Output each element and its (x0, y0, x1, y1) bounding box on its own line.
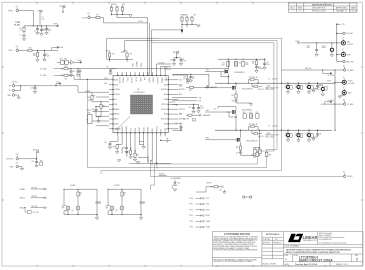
wire PLLIN line (104, 22, 148, 24)
svg-text:R13: R13 (33, 53, 36, 55)
svg-text:100uF: 100uF (306, 87, 310, 89)
svg-text:C5: C5 (42, 17, 44, 19)
terminal GND E11 (10, 163, 24, 171)
power flag INTVCC (38, 10, 45, 26)
svg-text:470uF: 470uF (295, 87, 299, 89)
resistor R27 (63, 74, 75, 80)
wire top (64, 189, 97, 200)
svg-text:1uF: 1uF (42, 19, 45, 21)
svg-text:E10: E10 (16, 154, 19, 156)
svg-text:ITEMP1: ITEMP1 (148, 156, 150, 162)
svg-text:BG1: BG1 (179, 94, 182, 96)
svg-text:Tuesday, April 15, 2014: Tuesday, April 15, 2014 (295, 263, 318, 266)
die pad crosshatch (131, 95, 153, 114)
svg-text:TP1: TP1 (342, 24, 345, 26)
svg-text:REVISION HISTORY: REVISION HISTORY (312, 5, 332, 7)
buffer U2 (57, 59, 82, 65)
svg-text:SW2: SW2 (164, 124, 167, 126)
capacitor C18 (232, 100, 238, 103)
approvals grid (262, 237, 284, 259)
svg-text:PLLIN: PLLIN (135, 77, 137, 81)
svg-text:DESCRIPTION: DESCRIPTION (312, 8, 326, 10)
svg-text:VOUT+: VOUT+ (348, 81, 354, 83)
wire VOSNS+ top (282, 69, 344, 71)
svg-text:BSC050NE2LS: BSC050NE2LS (235, 72, 245, 74)
capacitor C50 (105, 141, 119, 149)
svg-text:REV: REV (298, 8, 303, 10)
terminal GND sense (337, 60, 354, 63)
svg-text:VFB2: VFB2 (206, 215, 210, 217)
svg-text:10uF: 10uF (245, 64, 248, 66)
svg-text:SW1: SW1 (164, 84, 167, 86)
ground SGND (117, 160, 139, 164)
svg-text:VIN_SNS: VIN_SNS (346, 33, 352, 35)
wire mid horizontals (86, 79, 88, 167)
capacitor C31 (31, 85, 37, 93)
capacitor C8 (170, 58, 176, 66)
svg-text:C9: C9 (182, 59, 184, 61)
LTC logo (288, 233, 318, 242)
svg-text:PGOOD2: PGOOD2 (156, 77, 158, 84)
snubber R23 C28 (253, 130, 261, 156)
svg-text:ECO: ECO (290, 8, 295, 10)
svg-text:E11: E11 (16, 163, 19, 165)
svg-text:R7: R7 (116, 7, 118, 9)
wire VIN rail (302, 42, 337, 44)
svg-text:C28: C28 (200, 106, 203, 108)
svg-text:TITLE: SCHEMATIC: TITLE: SCHEMATIC (284, 244, 300, 247)
jumper JP1 MODE (110, 4, 147, 18)
capacitor C45 (312, 130, 322, 141)
svg-text:R30: R30 (252, 154, 255, 156)
svg-text:ITH2: ITH2 (131, 128, 133, 131)
svg-text:R15: R15 (64, 59, 67, 61)
svg-text:PVIN: PVIN (164, 99, 168, 101)
svg-text:TP11: TP11 (189, 204, 193, 206)
svg-text:R33: R33 (88, 97, 91, 99)
svg-text:C15: C15 (238, 63, 241, 65)
svg-text:SNS2-: SNS2- (118, 127, 120, 132)
svg-text:PRODUCTION: PRODUCTION (312, 11, 326, 13)
svg-text:CLKOUT: CLKOUT (159, 62, 165, 64)
svg-text:J3: J3 (342, 49, 344, 51)
svg-text:CLKIN: CLKIN (77, 60, 81, 62)
ground PGND1 (236, 103, 253, 106)
svg-text:APP ENG: APP ENG (262, 242, 271, 245)
svg-text:C32: C32 (285, 85, 288, 87)
svg-text:DATE: DATE (351, 7, 357, 10)
transistor Q4 (237, 130, 258, 146)
inductor L2 (265, 125, 279, 138)
svg-text:DCR = 0.32m: DCR = 0.32m (265, 89, 275, 91)
wire bottom (64, 214, 97, 216)
svg-text:MIKHAIL N: MIKHAIL N (336, 10, 346, 13)
box R36 (88, 113, 93, 124)
svg-text:PHASMD: PHASMD (181, 13, 189, 16)
wire INTVCC row (172, 74, 209, 88)
resistor R41 (126, 150, 132, 159)
svg-text:4.7uF: 4.7uF (183, 78, 187, 80)
svg-text:R14: R14 (60, 59, 63, 61)
svg-text:E6: E6 (343, 100, 345, 102)
wire sense loop A (101, 38, 282, 174)
capacitor C15 (234, 62, 241, 67)
svg-text:R2_4: R2_4 (179, 85, 183, 87)
net arrow RUN (52, 46, 64, 50)
wire PHASMD to bus (156, 29, 182, 31)
svg-text:LED: LED (178, 183, 181, 185)
jumper JP4 RUN2 (123, 51, 132, 60)
svg-text:BOOST1: BOOST1 (161, 89, 167, 91)
svg-text:TP15: TP15 (189, 227, 193, 229)
svg-text:VO_SNS-: VO_SNS- (40, 75, 47, 77)
svg-text:2: 2 (356, 258, 358, 262)
resistor R1 (20, 26, 26, 34)
svg-text:E7: E7 (343, 172, 345, 174)
svg-text:OPT: OPT (98, 203, 101, 205)
power flag INTVCC2 (173, 52, 181, 59)
svg-text:VO_SNS+: VO_SNS+ (347, 70, 354, 72)
svg-text:R41: R41 (126, 152, 129, 154)
svg-text:C50: C50 (105, 142, 108, 144)
wire VOSNS to IC (78, 68, 229, 70)
resistor R42 (133, 153, 139, 161)
svg-text:TECHNOLOGY: TECHNOLOGY (303, 240, 317, 242)
svg-text:R31: R31 (269, 154, 272, 156)
svg-text:R5: R5 (97, 15, 99, 17)
resistor R22 (236, 146, 242, 152)
svg-text:TIB: TIB (199, 101, 201, 103)
svg-text:SNSD1+: SNSD1+ (20, 198, 26, 200)
node SW1 bus (215, 82, 335, 84)
svg-text:R40: R40 (113, 146, 116, 148)
svg-text:SNSD2+: SNSD2+ (122, 126, 124, 132)
capacitor C11 electrolytic (322, 43, 334, 57)
svg-text:Fax: (408)434-0507: Fax: (408)434-0507 (319, 239, 332, 241)
svg-text:1-15-14: 1-15-14 (350, 11, 358, 13)
svg-text:VOSNS-: VOSNS- (114, 94, 120, 96)
diode D1 (172, 180, 176, 189)
testpoint TP1 (336, 24, 345, 26)
svg-text:C1: C1 (20, 35, 22, 37)
svg-text:Q5: Q5 (71, 210, 73, 212)
svg-text:R34: R34 (102, 105, 105, 107)
svg-text:VO_SNS+: VO_SNS+ (40, 68, 47, 70)
svg-text:C26: C26 (255, 112, 258, 114)
svg-text:INTVCC: INTVCC (156, 125, 158, 132)
resistor R30 (252, 152, 259, 156)
resistor R33 (88, 94, 94, 102)
svg-text:BG2: BG2 (206, 138, 209, 140)
svg-text:TP13: TP13 (189, 215, 193, 217)
terminal RUN (9, 46, 19, 52)
svg-text:VOUT: VOUT (327, 80, 331, 82)
jack J2 VIN (337, 38, 353, 46)
capacitor C31 (172, 123, 182, 131)
net arrow VCC (55, 82, 61, 87)
svg-text:J4: J4 (343, 77, 345, 79)
svg-text:C8: C8 (170, 60, 172, 62)
svg-text:C55: C55 (32, 161, 35, 163)
rotated top pin labels (118, 77, 167, 84)
capacitor C29 (69, 68, 75, 77)
inductor L1 (265, 79, 279, 92)
svg-text:LTC3875EUJ: LTC3875EUJ (134, 92, 145, 94)
svg-text:EXTVCC: EXTVCC (169, 102, 176, 104)
terminal VO_SNS- (343, 100, 354, 106)
resistor R34 (100, 101, 105, 110)
capacitor C9b (189, 74, 195, 82)
svg-text:R8: R8 (121, 7, 123, 9)
svg-text:VFB1: VFB1 (206, 209, 210, 211)
svg-text:C4: C4 (48, 28, 50, 30)
svg-text:C35: C35 (319, 85, 322, 87)
power flag VCC top (60, 6, 67, 13)
right block rows (283, 232, 363, 267)
svg-text:VFB: VFB (114, 104, 117, 106)
rotated labels above IC (131, 61, 142, 68)
svg-text:ITEMP2: ITEMP2 (152, 159, 154, 165)
svg-text:R47 NC: R47 NC (207, 182, 213, 184)
svg-text:C24: C24 (184, 77, 187, 79)
ground stubs left (96, 110, 101, 123)
svg-text:R42: R42 (136, 155, 139, 157)
capacitor C51 (122, 147, 128, 153)
terminal VIN sense (336, 32, 353, 35)
resistor R50 (77, 192, 79, 196)
svg-text:SIZE: SIZE (284, 255, 288, 257)
connector J6 VCC (8, 82, 79, 100)
capacitor C42 (285, 130, 293, 142)
svg-text:C27: C27 (236, 152, 239, 154)
svg-text:C29: C29 (72, 71, 75, 73)
svg-text:L2: L2 (268, 125, 270, 127)
capacitor C14 (221, 62, 230, 67)
svg-text:MODE: MODE (111, 4, 117, 6)
svg-text:R50: R50 (79, 193, 82, 195)
svg-text:L1: L1 (268, 79, 270, 81)
svg-text:INTVCC: INTVCC (161, 104, 168, 106)
svg-text:R11: R11 (191, 17, 194, 19)
svg-text:OPT: OPT (62, 207, 65, 209)
svg-text:C11: C11 (323, 45, 326, 47)
resistor R51b (121, 192, 123, 196)
wire sense loop C (151, 43, 274, 164)
svg-text:GND_SNS: GND_SNS (346, 61, 353, 63)
svg-text:OPT: OPT (106, 207, 109, 209)
net arrow VO_SNS- left (40, 75, 63, 78)
rotated labels below IC (122, 147, 158, 169)
svg-text:DCR = 0.32m: DCR = 0.32m (265, 136, 275, 138)
resistor R31 (265, 152, 271, 156)
testpoint TP11 (189, 203, 209, 205)
resistor R45 OPT loop (24, 207, 38, 214)
svg-text:C6: C6 (46, 54, 48, 56)
resistor R20 (243, 112, 247, 118)
capacitor C61 (140, 201, 142, 202)
ground (96, 215, 98, 217)
svg-text:ITEMP2: ITEMP2 (152, 77, 154, 83)
ground (128, 14, 130, 16)
svg-text:R21: R21 (249, 112, 252, 114)
capacitor C12 (307, 43, 319, 57)
svg-text:MODE: MODE (114, 124, 119, 126)
svg-text:C58: C58 (106, 67, 109, 69)
svg-text:470uF: 470uF (285, 135, 289, 137)
svg-text:10: 10 (79, 194, 81, 196)
wire top bends to right (157, 64, 172, 72)
svg-text:JP4: JP4 (130, 54, 133, 56)
svg-text:C43: C43 (295, 133, 298, 135)
net arrow BG1 (205, 87, 233, 89)
wire bottom collector (130, 163, 172, 165)
node VIN rail phase1 (218, 58, 266, 60)
resistor R37 sense tap 1 (249, 76, 259, 83)
svg-text:R10: R10 (186, 17, 189, 19)
svg-text:R52: R52 (62, 206, 65, 208)
capacitor C30 OPT (183, 118, 196, 121)
capacitor C28 (172, 104, 204, 113)
testpoint TP12 (189, 209, 209, 211)
wire PGOOD long (150, 175, 344, 177)
testpoint TP15 (189, 226, 211, 228)
labels IC left pins outside (85, 78, 109, 121)
transistor Q2 (233, 83, 254, 94)
capacitor C2 (34, 26, 39, 35)
svg-text:LINEAR: LINEAR (303, 235, 318, 241)
svg-text:4.5V-14V: 4.5V-14V (347, 44, 353, 46)
svg-text:C60: C60 (98, 201, 101, 203)
capacitor C16 (241, 62, 248, 67)
svg-text:C51: C51 (122, 148, 125, 150)
capacitor C40 sense tap 2 (252, 130, 263, 138)
power flag EXTVCC (33, 150, 40, 154)
svg-text:RUN: RUN (165, 77, 167, 80)
capacitor C58 top-left of IC (106, 67, 116, 76)
transistor Q5 (66, 206, 70, 210)
svg-text:R9: R9 (181, 17, 183, 19)
svg-text:5V_VCC: 5V_VCC (12, 82, 19, 84)
svg-text:C9: C9 (192, 76, 194, 78)
terminal PLLIN (82, 13, 90, 19)
svg-text:SNS_1B: SNS_1B (258, 89, 263, 91)
svg-text:R22: R22 (236, 147, 239, 149)
svg-text:E3: E3 (16, 46, 18, 48)
svg-text:C34: C34 (306, 85, 309, 87)
svg-text:PGOOD1: PGOOD1 (118, 77, 120, 84)
jack J5 GND out (338, 87, 352, 98)
svg-text:J2: J2 (342, 38, 344, 40)
net arrow SNS_1A (20, 186, 47, 190)
svg-text:2200pF: 2200pF (258, 68, 263, 70)
svg-text:470uF: 470uF (285, 87, 289, 89)
title area (284, 244, 359, 266)
wire EXTVCC (18, 153, 36, 159)
wire VOUT rail (335, 70, 343, 130)
svg-text:VFB2: VFB2 (135, 128, 137, 132)
wire boost (221, 72, 228, 77)
capacitor C27 (236, 152, 242, 155)
svg-text:E9: E9 (9, 90, 11, 92)
svg-text:C30_OPT: C30_OPT (183, 118, 189, 120)
svg-text:RUN: RUN (9, 50, 14, 52)
svg-text:R54: R54 (106, 206, 109, 208)
resistor R40 (113, 144, 123, 153)
svg-text:2.2uF: 2.2uF (266, 64, 270, 66)
svg-text:R57: R57 (40, 160, 43, 162)
svg-text:0.1uF: 0.1uF (221, 64, 225, 66)
capacitor C35 (312, 83, 322, 93)
svg-text:10: 10 (123, 194, 125, 196)
svg-text:TP10: TP10 (189, 198, 193, 200)
jumper JP2 PHASMD (181, 13, 201, 33)
rotated bottom pin labels (118, 125, 167, 132)
svg-text:0.1uF: 0.1uF (200, 107, 204, 109)
svg-text:CLKOUT: CLKOUT (130, 77, 132, 83)
resistor R38 sense tap 2 (249, 123, 259, 130)
wire bottom verticals to bus (150, 160, 154, 185)
svg-text:R1: R1 (20, 28, 22, 30)
svg-text:C18: C18 (232, 100, 235, 102)
svg-text:ITEMP1: ITEMP1 (147, 77, 149, 83)
svg-text:C12: C12 (307, 45, 310, 47)
svg-text:PVIN: PVIN (8, 10, 13, 12)
capacitor C3 (40, 26, 45, 36)
net arrow VO_SNS+ left (40, 68, 63, 71)
svg-text:DEMO CIRCUIT 2050A: DEMO CIRCUIT 2050A (299, 258, 333, 262)
svg-text:BOOST1: BOOST1 (179, 89, 185, 91)
net arrow VOSNS- (325, 100, 335, 104)
svg-text:J5: J5 (343, 87, 345, 89)
svg-text:APPROVED: APPROVED (336, 7, 348, 10)
svg-text:R27: R27 (65, 78, 68, 80)
svg-text:R12: R12 (29, 47, 32, 49)
svg-text:INTVCC: INTVCC (60, 6, 67, 8)
svg-text:R6: R6 (180, 113, 182, 115)
wire PVIN to bus (18, 11, 33, 26)
svg-text:C58_OPT: C58_OPT (33, 212, 39, 214)
ground below IC (139, 141, 145, 148)
svg-text:C25: C25 (214, 108, 217, 110)
capacitor C44 (306, 130, 314, 142)
svg-text:C3: C3 (43, 28, 45, 30)
svg-text:E5: E5 (343, 65, 345, 67)
capacitor C1 (20, 35, 26, 41)
op-amp U1 body (113, 76, 168, 133)
terminal VO_SNS+ (343, 65, 354, 71)
node SW2 bus (215, 129, 332, 131)
capacitor C26 (255, 112, 259, 118)
svg-text:PGOOD: PGOOD (159, 173, 166, 175)
svg-text:BSC010NE2LSI: BSC010NE2LSI (242, 89, 253, 91)
svg-text:R26: R26 (65, 66, 68, 68)
svg-text:VO_SNS-: VO_SNS- (347, 104, 354, 106)
svg-text:BUCK CONVERTER WITH VERY LOW D: BUCK CONVERTER WITH VERY LOW DCR INDUCTO… (286, 252, 340, 254)
svg-text:R23: R23 (253, 148, 256, 150)
svg-text:EXTVCC: EXTVCC (179, 109, 186, 111)
svg-text:C28: C28 (258, 148, 261, 150)
IC pin stubs (109, 72, 172, 136)
svg-text:TIB: TIB (166, 142, 168, 144)
wire vertical input (336, 24, 338, 61)
jack J4 VOUT (342, 77, 354, 85)
net arrow TIA (172, 96, 201, 99)
capacitor C24 (172, 75, 189, 84)
svg-text:C46: C46 (92, 109, 95, 111)
svg-text:7V-14V: 7V-14V (14, 23, 21, 26)
approvals (262, 233, 282, 265)
svg-text:OPT: OPT (142, 203, 145, 205)
